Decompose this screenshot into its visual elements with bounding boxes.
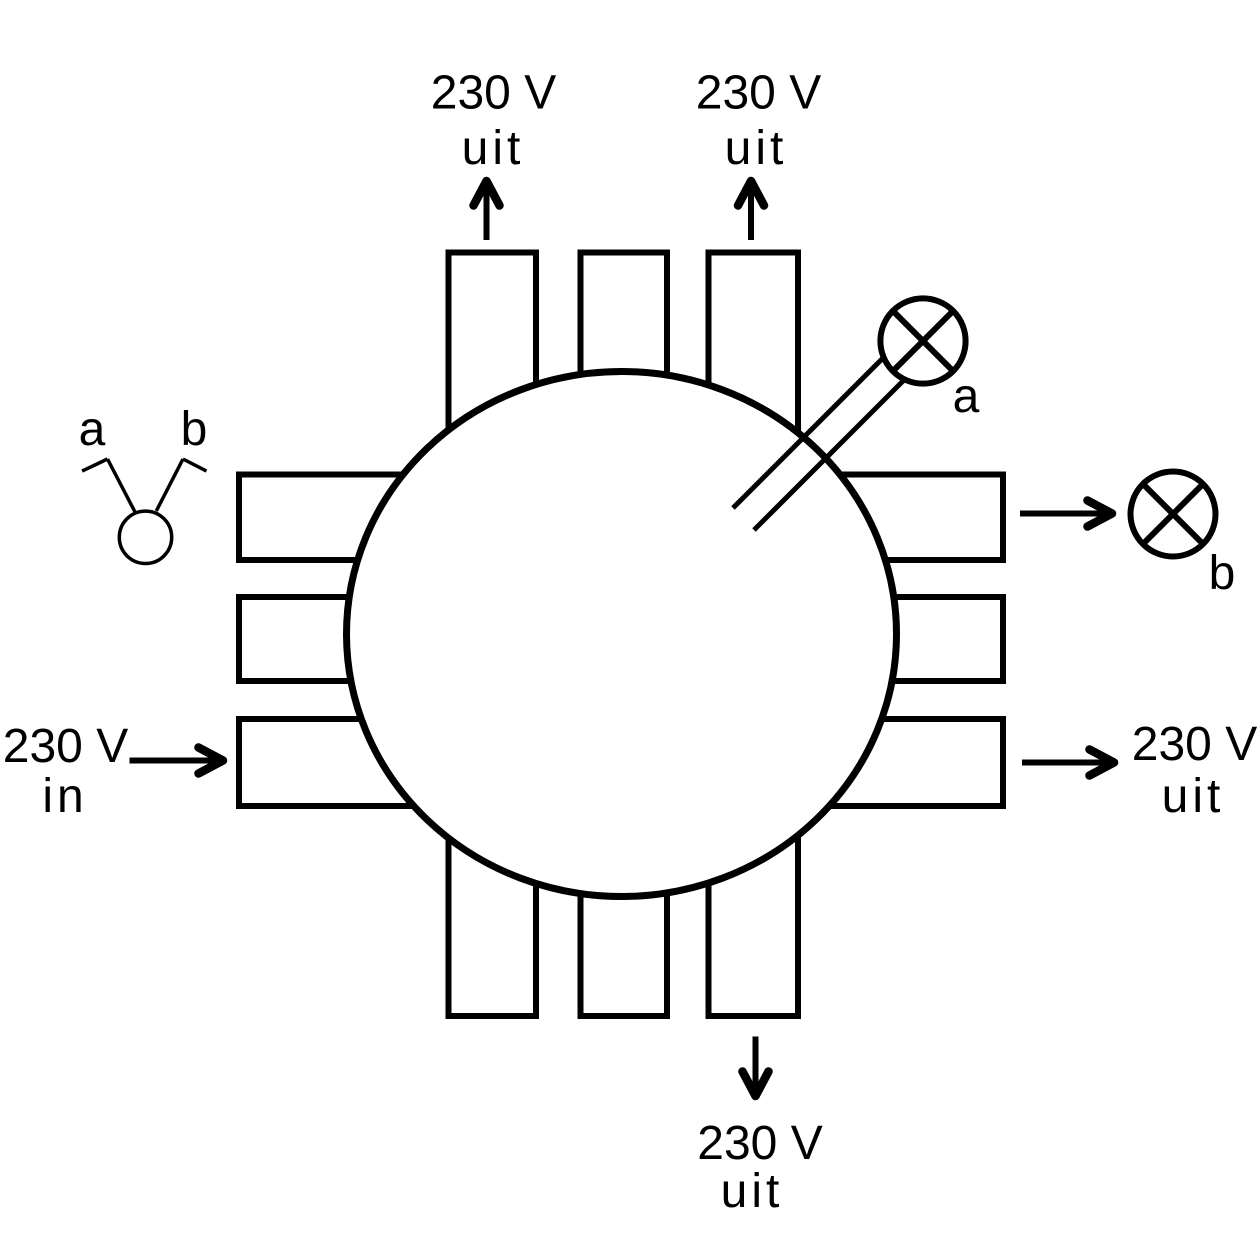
svg-text:230 V: 230 V: [1132, 718, 1257, 771]
switch body circle: [119, 511, 171, 563]
arrow up top-right: shaft: [748, 186, 754, 240]
terminal tab right-bottom: [663, 719, 1003, 806]
arrow up top-right: head: [738, 181, 764, 206]
terminal tab bottom-left: [449, 680, 537, 1016]
lamp b cross stroke 1: [1143, 484, 1203, 544]
junction box circle: [347, 372, 897, 897]
lamp a cross stroke 2: [893, 311, 953, 371]
arrow right to lamp b: shaft: [1020, 511, 1112, 517]
svg-text:230 V: 230 V: [3, 720, 128, 773]
terminal tab right-top: [663, 475, 1003, 561]
arrow right bottom: head: [1090, 750, 1115, 776]
terminal tab left-top: [239, 475, 579, 561]
svg-text:230 V: 230 V: [696, 67, 821, 120]
terminal tab left-middle: [239, 597, 579, 681]
wire to lamp a (lower conductor): [754, 374, 910, 530]
svg-text:230 V: 230 V: [431, 67, 556, 120]
terminal tab top-left: [449, 253, 537, 593]
lamp a circle: [880, 298, 965, 383]
svg-text:uit: uit: [462, 122, 525, 175]
arrow down bottom: head: [743, 1072, 769, 1097]
switch leg a: [108, 459, 136, 512]
svg-text:b: b: [181, 403, 208, 456]
switch leg b: [156, 459, 183, 511]
arrow up top-left: head: [474, 181, 500, 206]
svg-text:uit: uit: [1162, 770, 1225, 823]
arrow right to lamp b: head: [1088, 501, 1113, 527]
terminal tab left-bottom: [239, 719, 579, 806]
terminal tab bottom-middle: [581, 680, 668, 1016]
arrow up top-left: shaft: [484, 186, 490, 240]
terminal tab bottom-right: [709, 680, 799, 1016]
svg-text:230 V: 230 V: [697, 1117, 822, 1170]
lamp b cross stroke 2: [1143, 484, 1203, 544]
arrow 230 V in: shaft: [130, 758, 224, 764]
arrow down bottom: shaft: [753, 1037, 759, 1097]
terminal tab top-middle: [581, 253, 668, 593]
lamp a cross stroke 1: [893, 311, 953, 371]
lamp b circle: [1131, 472, 1216, 557]
svg-text:a: a: [79, 403, 106, 456]
switch hook a: [82, 459, 107, 471]
arrow 230 V in: head: [199, 748, 224, 774]
wire to lamp a (upper conductor): [733, 346, 895, 508]
svg-text:uit: uit: [721, 1165, 784, 1218]
arrow right bottom: shaft: [1022, 760, 1114, 766]
svg-text:a: a: [953, 370, 980, 423]
switch hook b: [183, 459, 207, 471]
svg-text:b: b: [1209, 547, 1236, 600]
svg-text:in: in: [42, 770, 87, 823]
terminal tab top-right: [709, 253, 799, 593]
svg-text:uit: uit: [725, 122, 788, 175]
terminal tab right-middle: [663, 597, 1003, 681]
